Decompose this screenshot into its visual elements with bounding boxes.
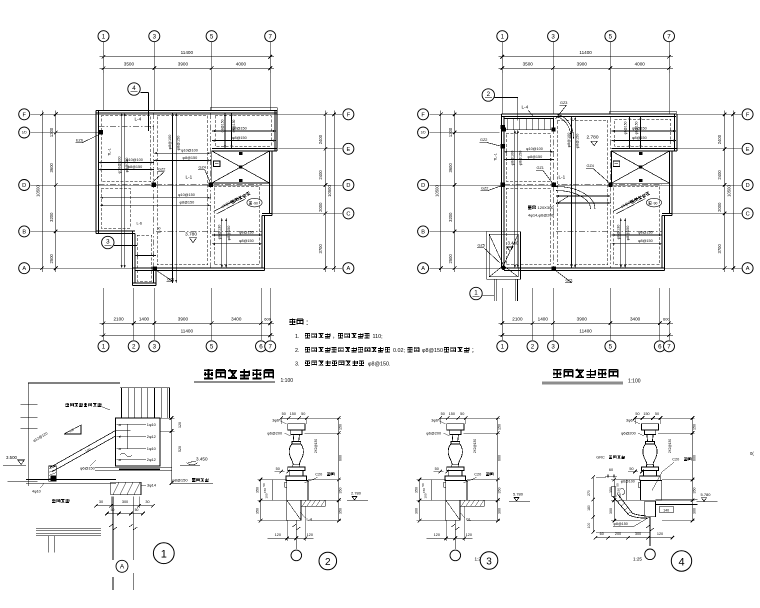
svg-text:4000: 4000 [635,62,646,67]
svg-text:50: 50 [135,508,139,512]
svg-text:：: ： [306,320,313,327]
svg-text:140: 140 [663,509,669,513]
svg-text:1200: 1200 [49,127,54,137]
svg-text:φ8@100: φ8@100 [510,151,514,166]
svg-text:7: 7 [268,344,272,351]
svg-text:5: 5 [609,344,613,351]
svg-text:30: 30 [99,500,103,504]
svg-text:120: 120 [307,533,313,537]
svg-text:2500: 2500 [448,253,453,263]
svg-text:7: 7 [667,344,671,351]
svg-text:φ8@150: φ8@150 [128,165,143,169]
svg-text:2400: 2400 [717,170,722,180]
svg-text:600: 600 [663,316,670,321]
svg-text:3φ6: 3φ6 [431,419,438,423]
svg-text:50: 50 [616,483,620,487]
svg-text:150: 150 [449,412,455,416]
svg-text:φ8@150: φ8@150 [220,119,224,132]
svg-text:B: B [22,229,26,235]
svg-text:300: 300 [498,508,502,514]
svg-text:；: ； [472,348,477,354]
svg-text:2400: 2400 [717,134,722,144]
svg-text:L-1: L-1 [559,175,566,180]
svg-text:120: 120 [275,533,281,537]
svg-text:6: 6 [658,344,662,351]
svg-text:3: 3 [551,33,555,40]
svg-text:150: 150 [422,488,426,493]
svg-text:φ8@150: φ8@150 [626,226,630,241]
svg-text:150: 150 [617,488,621,493]
svg-text:3: 3 [106,239,110,246]
svg-text:φ6@200: φ6@200 [267,432,282,436]
svg-text:3: 3 [486,556,492,567]
svg-text:φ10@100: φ10@100 [181,149,198,153]
svg-text:2000: 2000 [717,202,722,212]
svg-text:2.: 2. [295,348,300,354]
svg-text:2.780: 2.780 [587,135,599,141]
svg-text:180: 180 [587,505,591,511]
svg-text:10500: 10500 [726,185,731,197]
svg-text:270: 270 [587,490,591,496]
svg-text:L-4: L-4 [307,518,313,522]
svg-text:2: 2 [132,344,136,351]
svg-text:3: 3 [551,344,555,351]
svg-text:TL-1: TL-1 [108,148,112,156]
svg-text:C20: C20 [474,473,481,477]
svg-text:50: 50 [262,483,266,487]
svg-text:30: 30 [145,500,149,504]
svg-text:C: C [746,211,750,217]
svg-text:150: 150 [263,488,267,493]
svg-text:150: 150 [339,424,343,430]
svg-text:2.780: 2.780 [351,491,362,496]
svg-text:3700: 3700 [318,243,323,253]
svg-text:350: 350 [498,488,502,494]
svg-text:1:25: 1:25 [633,557,642,562]
svg-text:GZ5: GZ5 [478,244,485,248]
svg-text:φ8@130: φ8@130 [616,225,620,240]
svg-text:φ8@130: φ8@130 [638,230,653,234]
svg-text:50: 50 [276,467,280,471]
svg-text:φ6@150: φ6@150 [80,467,95,471]
svg-text:110;: 110; [373,334,384,340]
svg-text:φ8@150: φ8@150 [177,136,181,151]
svg-text:600: 600 [692,455,696,461]
svg-text:L-6: L-6 [137,222,143,226]
svg-text:10500: 10500 [434,185,439,197]
svg-text:φ6@100: φ6@100 [621,479,635,483]
svg-text:50: 50 [629,467,633,471]
svg-text:，: ， [333,334,338,340]
svg-text:300: 300 [609,508,613,514]
svg-text:-90: -90 [253,201,258,205]
svg-text:L-4: L-4 [522,105,529,110]
svg-text:50: 50 [301,412,305,416]
svg-text:3φ14: 3φ14 [147,483,157,488]
svg-text:4: 4 [132,85,136,92]
svg-text:1: 1 [474,290,478,297]
svg-text:D: D [22,183,26,189]
svg-text:3400: 3400 [231,316,242,321]
svg-text:350: 350 [255,487,259,493]
svg-text:300: 300 [414,508,418,514]
svg-text:3200: 3200 [448,212,453,222]
svg-text:A: A [746,266,750,272]
svg-text:φ8@150: φ8@150 [172,478,188,483]
svg-text:D: D [421,183,425,189]
svg-text:2100: 2100 [512,316,523,321]
svg-text:1: 1 [102,33,106,40]
svg-text:520: 520 [178,446,182,452]
svg-text:1: 1 [102,344,106,351]
svg-text:φ10@150: φ10@150 [178,193,195,197]
svg-text:3: 3 [153,344,157,351]
svg-text:50: 50 [111,508,115,512]
svg-text:50: 50 [635,412,639,416]
svg-text:120X300: 120X300 [538,205,555,210]
svg-text:GZ4: GZ4 [199,166,206,170]
svg-text:C20: C20 [315,473,322,477]
svg-text:1φ10: 1φ10 [147,446,157,451]
svg-text:5: 5 [210,33,214,40]
svg-text:φ10@100: φ10@100 [526,147,543,151]
svg-text:50: 50 [421,483,425,487]
svg-text:φ8@150: φ8@150 [125,158,129,173]
svg-text:100: 100 [264,493,268,498]
svg-text:1400: 1400 [538,316,549,321]
svg-text:GZ1: GZ1 [537,166,544,170]
svg-text:1400: 1400 [139,316,150,321]
svg-text:2X2@130: 2X2@130 [473,439,477,453]
svg-text:3600: 3600 [448,162,453,172]
svg-text:GZ2: GZ2 [480,138,487,142]
svg-text:7: 7 [268,33,272,40]
svg-text:200: 200 [615,532,621,536]
svg-text:3900: 3900 [577,316,588,321]
svg-text:φ8@100: φ8@100 [168,135,172,150]
svg-text:φ8@150: φ8@150 [422,348,443,354]
svg-text:4φ10: 4φ10 [32,490,41,494]
svg-text:C20: C20 [672,458,679,462]
svg-text:A: A [22,266,26,272]
svg-text:120: 120 [466,533,472,537]
svg-text:1:100: 1:100 [281,378,294,384]
svg-text:120: 120 [657,532,663,536]
svg-text:300: 300 [692,508,696,514]
svg-text:150: 150 [290,412,296,416]
svg-text:150: 150 [498,424,502,430]
svg-text:5: 5 [609,33,613,40]
svg-text:50: 50 [441,412,445,416]
svg-text:φ8@150: φ8@150 [239,239,254,243]
svg-text:φ8@100: φ8@100 [567,133,571,148]
svg-text:350: 350 [339,488,343,494]
svg-text:350: 350 [414,487,418,493]
svg-text:B: B [421,229,425,235]
svg-text:5.780: 5.780 [513,492,524,497]
svg-text:C: C [346,211,350,217]
svg-text:3900: 3900 [178,62,189,67]
svg-text:3φ6: 3φ6 [626,419,633,423]
svg-text:100: 100 [587,523,591,529]
svg-text:4: 4 [678,556,684,568]
svg-text:2000: 2000 [318,202,323,212]
svg-text:3500: 3500 [124,62,135,67]
svg-text:2400: 2400 [318,134,323,144]
svg-text:φ8@150: φ8@150 [635,121,639,134]
svg-text:350: 350 [692,488,696,494]
svg-text:2100: 2100 [113,316,124,321]
svg-text:φ10@100: φ10@100 [117,157,121,174]
svg-text:600: 600 [498,455,502,461]
svg-text:φ6@200: φ6@200 [426,432,441,436]
svg-text:3φ6: 3φ6 [272,419,279,423]
svg-text:11400: 11400 [579,329,592,334]
svg-text:60: 60 [609,468,613,472]
svg-text:1: 1 [501,33,505,40]
svg-text:φ8@150: φ8@150 [518,151,522,166]
svg-text:3.: 3. [295,362,300,368]
svg-text:φ8@150: φ8@150 [183,156,198,160]
svg-text:600: 600 [264,316,271,321]
svg-text:φ8@150: φ8@150 [232,119,236,132]
svg-text:50: 50 [655,412,659,416]
svg-text:GZ4: GZ4 [587,164,594,168]
svg-text:A: A [347,266,351,272]
svg-text:2: 2 [487,91,491,98]
svg-text:5: 5 [210,344,214,351]
svg-text:10500: 10500 [327,185,332,197]
svg-text:150: 150 [692,424,696,430]
svg-text:350: 350 [609,487,613,493]
svg-text:φ8@130: φ8@130 [239,230,254,234]
svg-text:3900: 3900 [577,62,588,67]
svg-text:2500: 2500 [49,253,54,263]
svg-text:A: A [421,266,425,272]
svg-text:2X2@130: 2X2@130 [668,439,672,453]
svg-text:D: D [746,183,750,189]
svg-text:2: 2 [325,557,331,568]
svg-text:50: 50 [435,467,439,471]
svg-text:300: 300 [635,532,641,536]
svg-text:TL-1: TL-1 [494,153,498,161]
svg-text:φ8@150: φ8@150 [576,134,580,149]
svg-text:1/D: 1/D [421,131,427,135]
svg-text:GRC: GRC [596,456,605,460]
svg-text:350: 350 [255,508,259,514]
svg-text:φ8@150: φ8@150 [232,136,247,140]
svg-text:φ8@150: φ8@150 [227,226,231,241]
svg-text:3: 3 [153,33,157,40]
svg-text:φ8@150.: φ8@150. [368,362,390,368]
svg-text:D: D [346,183,350,189]
svg-text:50: 50 [460,412,464,416]
svg-text:50: 50 [282,412,286,416]
svg-text:60: 60 [600,532,604,536]
svg-text:φ8@150: φ8@150 [614,522,628,526]
svg-text:1.: 1. [295,334,300,340]
svg-text:F: F [421,112,425,118]
svg-text:2: 2 [531,344,535,351]
svg-text:6: 6 [259,344,263,351]
svg-text:2X2@130: 2X2@130 [314,439,318,453]
svg-text:0(: 0( [750,451,754,456]
svg-text:E: E [347,147,351,153]
svg-text:11400: 11400 [181,50,194,55]
svg-text:3700: 3700 [717,243,722,253]
svg-text:GZ3: GZ3 [560,101,567,105]
svg-text:1: 1 [161,549,167,561]
svg-text:EZ6: EZ6 [76,139,83,143]
svg-text:4000: 4000 [236,62,247,67]
svg-text:L-4: L-4 [135,117,142,122]
svg-text:11400: 11400 [579,50,592,55]
svg-text:3400: 3400 [630,316,641,321]
svg-text:2φ12: 2φ12 [147,434,156,439]
svg-text:10500: 10500 [35,185,40,197]
svg-text:3200: 3200 [49,212,54,222]
svg-text:120: 120 [178,422,182,428]
svg-text:GZ2: GZ2 [158,168,165,172]
svg-text:1:100: 1:100 [628,379,641,385]
svg-text:3.500: 3.500 [6,455,18,460]
svg-text:3.780: 3.780 [185,231,197,237]
svg-text:120: 120 [434,533,440,537]
svg-text:GZ2: GZ2 [481,187,488,191]
svg-text:-90: -90 [653,201,658,205]
svg-text:L-5: L-5 [158,227,162,233]
svg-text:3600: 3600 [49,162,54,172]
svg-text:600: 600 [339,455,343,461]
svg-text:150: 150 [643,412,649,416]
svg-text:3.450: 3.450 [196,457,208,462]
svg-text:3.480: 3.480 [508,241,520,246]
svg-text:1: 1 [501,344,505,351]
svg-text:300: 300 [122,500,128,504]
svg-text:φ8@150: φ8@150 [638,239,653,243]
svg-text:φ8@150: φ8@150 [624,121,628,134]
svg-text:2φ12: 2φ12 [147,457,156,462]
svg-text:3500: 3500 [523,62,534,67]
svg-text:E: E [746,147,750,153]
svg-text:1φ10: 1φ10 [147,422,157,427]
svg-text:A: A [120,564,125,571]
svg-text:0.02;: 0.02; [393,348,405,354]
svg-text:φ8@150: φ8@150 [632,136,647,140]
svg-text:4φ14,φ6@200: 4φ14,φ6@200 [528,213,555,218]
svg-text:F: F [22,112,26,118]
svg-text:F: F [347,112,351,118]
svg-text:3900: 3900 [178,316,189,321]
svg-text:φ6@200: φ6@200 [621,432,636,436]
svg-text:F: F [746,112,750,118]
svg-text:350: 350 [339,508,343,514]
svg-text:100: 100 [423,493,427,498]
svg-text:1/D: 1/D [22,131,28,135]
svg-text:φ8@150: φ8@150 [528,155,543,159]
svg-text:φ8@150: φ8@150 [180,201,195,205]
svg-text:11400: 11400 [181,329,194,334]
svg-text:2400: 2400 [318,170,323,180]
svg-text:GL: GL [466,518,471,522]
svg-text:L-1: L-1 [186,175,193,180]
svg-text:5.780: 5.780 [701,492,712,497]
svg-text:φ8@130: φ8@130 [217,225,221,240]
svg-text:7: 7 [667,33,671,40]
svg-text:1200: 1200 [448,127,453,137]
